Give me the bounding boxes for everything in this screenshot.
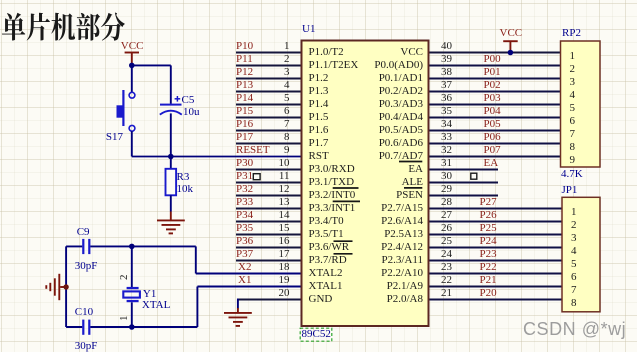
capacitor C5 <box>160 65 182 156</box>
pin name P1.0/T2 <box>309 47 344 58</box>
capacitor C9 plates <box>82 239 90 254</box>
pin name P0.1/AD1 <box>303 73 423 84</box>
pin number 27 <box>441 210 452 221</box>
node junction at VCC <box>129 63 135 69</box>
wire/pin left row 4 net P13 <box>236 91 301 93</box>
pin number 29 <box>441 184 452 195</box>
pin number JP1-5 <box>571 259 577 270</box>
net label P20 <box>480 288 497 299</box>
wire right row pin 21 to JP1 <box>430 299 562 301</box>
net label X2 <box>238 262 251 273</box>
net label P01 <box>484 67 501 78</box>
ground symbol at chip GND pin 20 <box>224 308 252 326</box>
resistor-pack RP2 body <box>561 41 601 167</box>
pin name EA <box>303 164 423 175</box>
pin number 17 <box>170 249 290 260</box>
wire right row pin 26 to JP1 <box>430 234 562 236</box>
net label P11 <box>236 54 253 65</box>
pin name P1.5 <box>309 112 329 123</box>
net label P05 <box>484 119 501 130</box>
wire right row pin 34 to RP2 <box>430 130 561 132</box>
pin number 15 <box>170 223 290 234</box>
wire/pin left row 12 net P32 <box>236 195 301 197</box>
pin number 2 (crystal, rotated) <box>119 269 130 280</box>
pin name P1.1/T2EX <box>309 60 359 71</box>
resistor R1=R3 body <box>166 157 177 212</box>
pin name P3.1/TXD <box>309 177 355 188</box>
wire right stub pin 30 <box>430 182 499 184</box>
pin number 11 <box>170 171 290 182</box>
power VCC symbol (right) <box>503 41 518 51</box>
pin number 34 <box>441 119 452 130</box>
pin number RP2-9 <box>570 155 576 166</box>
net label P26 <box>480 210 497 221</box>
pin name P2.1/A9 <box>303 281 423 292</box>
wire right row pin 35 to RP2 <box>430 117 561 119</box>
pin number 13 <box>170 197 290 208</box>
pin number 2 <box>170 54 290 65</box>
pin number JP1-8 <box>571 298 577 309</box>
wire/pin left row 2 net P11 <box>236 65 301 67</box>
pin name P3.7/RD <box>309 255 347 266</box>
pin number 39 <box>441 54 452 65</box>
pin number JP1-4 <box>571 246 577 257</box>
pin number RP2-5 <box>570 103 576 114</box>
pin name P3.2/INT0 <box>309 190 356 201</box>
net label P02 <box>484 80 501 91</box>
net label P33 <box>236 197 253 208</box>
value XTAL <box>142 300 170 311</box>
pin name P0.6/AD6 <box>303 138 423 149</box>
pin number 40 <box>441 41 452 52</box>
wire/pin left row 1 net P10 <box>236 52 301 54</box>
pin name P1.7 <box>309 138 329 149</box>
designator Y1 <box>143 289 156 300</box>
node junction C5/R3 on RESET wire <box>168 154 174 160</box>
pin name VCC <box>303 47 423 58</box>
wire right row pin 32 to RP2 <box>430 156 561 158</box>
pin name P2.2/A10 <box>303 268 423 279</box>
net label P07 <box>484 145 501 156</box>
wire/pin left row 17 net P37 <box>236 260 301 262</box>
pin name P3.5/T1 <box>309 229 344 240</box>
pin name P2.7/A15 <box>303 203 423 214</box>
pin number 23 <box>441 262 452 273</box>
ground symbol left of loop (rotated) <box>46 274 66 300</box>
pin number 31 <box>441 158 452 169</box>
value 89C52 <box>302 329 331 340</box>
power label VCC (right) <box>500 28 523 39</box>
pin number JP1-3 <box>571 233 577 244</box>
wire right stub pin 29 <box>430 195 499 197</box>
overline bar for RD <box>334 253 353 255</box>
designator R3 <box>177 172 190 183</box>
wire right row pin 22 to JP1 <box>430 286 562 288</box>
pin name P1.4 <box>309 99 329 110</box>
pin number 6 <box>170 106 290 117</box>
node junction VCC on pin40 wire <box>508 50 514 56</box>
pin name P0.7/AD7 <box>303 151 423 162</box>
net label P12 <box>236 67 253 78</box>
pin name P2.6/A14 <box>303 216 423 227</box>
pin number 24 <box>441 249 452 260</box>
pin number JP1-1 <box>571 207 577 218</box>
overline bar for WR <box>334 240 353 242</box>
pin name P3.6/WR <box>309 242 350 253</box>
net label P00 <box>484 54 501 65</box>
wire/pin left row 8 net P17 <box>236 143 301 145</box>
net label P17 <box>236 132 253 143</box>
transistor: none; switch S17 push button <box>117 90 135 131</box>
net label P15 <box>236 106 253 117</box>
wire left vertical of loop <box>65 246 67 327</box>
pin name XTAL1 <box>309 281 343 292</box>
pin number 26 <box>441 223 452 234</box>
pin number JP1-6 <box>571 272 577 283</box>
wire pin 20 GND stub <box>237 299 301 301</box>
wire/pin left row 11 net P31 <box>236 182 301 184</box>
pin name P2.3/A11 <box>303 255 423 266</box>
wire/pin left row 7 net P16 <box>236 130 301 132</box>
watermark CSDN @*wj <box>523 319 626 340</box>
net label P25 <box>480 223 497 234</box>
pin number 32 <box>441 145 452 156</box>
pin number 38 <box>441 67 452 78</box>
designator RP2 <box>562 28 581 39</box>
value 30pF (C9) <box>75 261 98 272</box>
pin number RP2-7 <box>570 129 576 140</box>
power label VCC (left) <box>121 41 144 52</box>
net label P27 <box>480 197 497 208</box>
wire VCC to switch top <box>131 65 133 92</box>
pin number 20 <box>170 288 290 299</box>
wire right row pin 39 to RP2 <box>430 65 561 67</box>
pin number 14 <box>170 210 290 221</box>
pin name P3.0/RXD <box>309 164 355 175</box>
pin number 8 <box>170 132 290 143</box>
ground symbol under R3 <box>157 212 185 234</box>
designator C10 <box>75 307 93 318</box>
wire/pin left row 5 net P14 <box>236 104 301 106</box>
pin number JP1-7 <box>571 285 577 296</box>
wire right row pin 24 to JP1 <box>430 260 562 262</box>
pin name P3.3/INT1 <box>309 203 356 214</box>
pin number RP2-8 <box>570 142 576 153</box>
pin number 16 <box>170 236 290 247</box>
pin name ALE <box>303 177 423 188</box>
pin name RST <box>309 151 329 162</box>
value 10u <box>183 107 200 118</box>
pin number 19 <box>170 275 290 286</box>
value 4.7K <box>561 169 583 180</box>
pin number 10 <box>170 158 290 169</box>
wire/pin left row 13 net P33 <box>236 208 301 210</box>
connector JP1 body <box>562 197 600 311</box>
net label X1 <box>238 275 251 286</box>
net label P31 <box>236 171 253 182</box>
pin number RP2-1 <box>570 51 576 62</box>
wire/pin left row 3 net P12 <box>236 78 301 80</box>
net label P23 <box>480 249 497 260</box>
net label P21 <box>480 275 497 286</box>
net label P06 <box>484 132 501 143</box>
net label P10 <box>236 41 253 52</box>
pin number 7 <box>170 119 290 130</box>
wire/pin left row 16 net P36 <box>236 247 301 249</box>
pin number RP2-6 <box>570 116 576 127</box>
pin name PSEN <box>303 190 423 201</box>
wire/pin left row 10 net P30 <box>236 169 301 171</box>
wire right row pin 37 to RP2 <box>430 91 561 93</box>
pin name GND <box>309 294 333 305</box>
pin number 5 <box>170 93 290 104</box>
designator U1 <box>302 24 315 35</box>
pin number 18 <box>170 262 290 273</box>
wire/pin left row 14 net P34 <box>236 221 301 223</box>
pin number 28 <box>441 197 452 208</box>
net label P16 <box>236 119 253 130</box>
value 10k <box>177 184 194 195</box>
pin name P0.3/AD3 <box>303 99 423 110</box>
pin name P0.0(AD0) <box>303 60 423 71</box>
pin number 22 <box>441 275 452 286</box>
wire right row pin 28 to JP1 <box>430 208 562 210</box>
designator JP1 <box>562 185 578 196</box>
net label P04 <box>484 106 501 117</box>
net label P13 <box>236 80 253 91</box>
wire right row pin 25 to JP1 <box>430 247 562 249</box>
pin number 36 <box>441 93 452 104</box>
pin name P0.5/AD5 <box>303 125 423 136</box>
wire VCC node to C5 branch <box>131 64 171 66</box>
pin number 33 <box>441 132 452 143</box>
net label P36 <box>236 236 253 247</box>
pin number 37 <box>441 80 452 91</box>
title text 单片机部分 <box>2 13 125 41</box>
op-amp U1 89C52 microcontroller body <box>302 41 429 327</box>
pin number 12 <box>170 184 290 195</box>
wire/pin left row 15 net P35 <box>236 234 301 236</box>
wire switch bottom to RESET row <box>131 131 133 156</box>
wire right stub pin 31 <box>430 169 499 171</box>
selection box around value 89C52 <box>300 328 332 341</box>
node junction crystal top <box>129 244 135 250</box>
pin name P0.2/AD2 <box>303 86 423 97</box>
designator S17 <box>106 132 123 143</box>
wire right row pin 27 to JP1 <box>430 221 562 223</box>
pin name P1.3 <box>309 86 329 97</box>
net label P32 <box>236 184 253 195</box>
wire right row pin 33 to RP2 <box>430 143 561 145</box>
pin name P2.4/A12 <box>303 242 423 253</box>
node junction crystal bottom <box>129 324 135 330</box>
pin number 25 <box>441 236 452 247</box>
designator C5 <box>182 95 195 106</box>
no-ERC marker at pin 30 <box>471 173 477 179</box>
wire right row pin 23 to JP1 <box>430 273 562 275</box>
wire/pin left row 6 net P15 <box>236 117 301 119</box>
capacitor C10 plates <box>82 320 90 335</box>
value 30pF (C10) <box>75 341 98 352</box>
pin name P1.2 <box>309 73 329 84</box>
pin number RP2-2 <box>570 64 576 75</box>
pin number 9 <box>170 145 290 156</box>
wire crystal branch <box>131 246 133 327</box>
pin name XTAL2 <box>309 268 343 279</box>
pin name P2.5A13 <box>303 229 423 240</box>
net label P34 <box>236 210 253 221</box>
net label P24 <box>480 236 497 247</box>
no-ERC marker at P31 (pin 11) <box>253 174 260 180</box>
net label P35 <box>236 223 253 234</box>
wire right row pin 38 to RP2 <box>430 78 561 80</box>
pin number RP2-4 <box>570 90 576 101</box>
power VCC symbol (left) <box>125 53 139 65</box>
overline bar for PSEN <box>404 187 422 189</box>
pin number 1 (crystal, rotated) <box>119 310 130 321</box>
pin name P3.4/T0 <box>309 216 344 227</box>
designator C9 <box>77 227 90 238</box>
wire right row pin 40 to RP2 <box>430 52 561 54</box>
node junction ground/loop <box>63 284 68 289</box>
wire crystal loop bottom (to X1) <box>66 287 300 328</box>
wire right row pin 36 to RP2 <box>430 104 561 106</box>
pin number 21 <box>441 288 452 299</box>
pin name P1.6 <box>309 125 329 136</box>
net label EA <box>484 158 499 169</box>
pin number RP2-3 <box>570 77 576 88</box>
pin number 30 <box>441 171 452 182</box>
wire RESET row to chip pin 9 <box>132 156 301 158</box>
net label P14 <box>236 93 253 104</box>
overline bar for INT0 <box>333 187 359 189</box>
net label P22 <box>480 262 497 273</box>
pin number 35 <box>441 106 452 117</box>
pin number 3 <box>170 67 290 78</box>
pin number 1 <box>170 41 290 52</box>
overline bar for INT1 <box>333 200 360 202</box>
pin number 4 <box>170 80 290 91</box>
overline bar for EA <box>399 161 422 163</box>
pin name P2.0/A8 <box>303 294 423 305</box>
net label P03 <box>484 93 501 104</box>
net label P37 <box>236 249 253 260</box>
wire crystal loop top (to X2) <box>66 246 300 273</box>
pin number JP1-2 <box>571 220 577 231</box>
pin name P0.4/AD4 <box>303 112 423 123</box>
net label RESET <box>236 145 270 156</box>
net label P30 <box>236 158 253 169</box>
crystal Y1 body <box>123 287 140 302</box>
